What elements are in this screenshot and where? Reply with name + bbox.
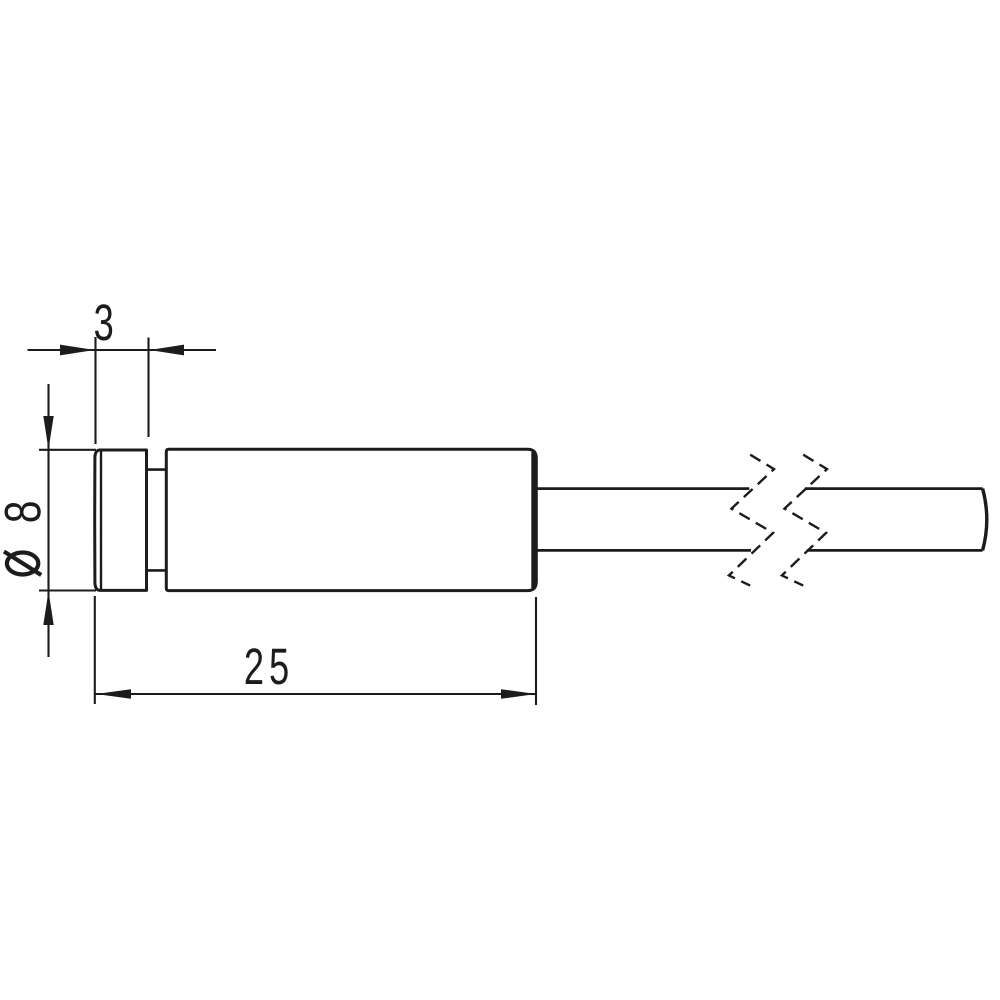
- dimension text 25 digit 5: [271, 649, 288, 685]
- cable bottom line (right part): [807, 549, 983, 552]
- cable bottom line (left part): [537, 549, 751, 552]
- dimension text Ø 8 (rotated): [4, 502, 40, 521]
- 25 dim line: [95, 693, 537, 695]
- Ø8 lower arrow (points up): [43, 591, 53, 625]
- neck bottom line: [147, 569, 166, 572]
- body right edge (thicker): [531, 452, 536, 588]
- cable break zigzag right: [782, 455, 827, 586]
- dimension text 3: [95, 304, 112, 340]
- Ø8 dim line (continuous vertical): [47, 384, 49, 657]
- sensor cap (sensing face): [95, 450, 147, 590]
- Ø8 bottom extension line: [39, 589, 96, 591]
- Ø8 top extension line: [39, 449, 96, 451]
- arrow left of 3 (points right): [60, 345, 95, 356]
- neck top line: [147, 468, 166, 471]
- dimension text 25: [246, 648, 263, 684]
- 25 left extension line: [94, 596, 96, 704]
- cable end cap: [983, 489, 987, 551]
- dim line for 3: [28, 349, 217, 351]
- cable top line (left part): [537, 487, 749, 490]
- cap inner edge line: [100, 452, 102, 590]
- Ø8 upper arrow (points down): [43, 416, 53, 450]
- cable top line (right part): [805, 487, 983, 490]
- 25 right arrow (points right): [501, 689, 536, 699]
- cable break zigzag left: [729, 455, 774, 586]
- sensor body: [166, 449, 536, 590]
- diameter symbol Ø (drawn): [4, 552, 41, 576]
- 25 right extension line: [535, 597, 537, 705]
- extension line A (left of 3): [94, 337, 96, 444]
- arrow right of 3 (points left): [150, 345, 185, 356]
- 25 left arrow (points left): [96, 689, 131, 699]
- extension line B (right of 3): [147, 338, 149, 438]
